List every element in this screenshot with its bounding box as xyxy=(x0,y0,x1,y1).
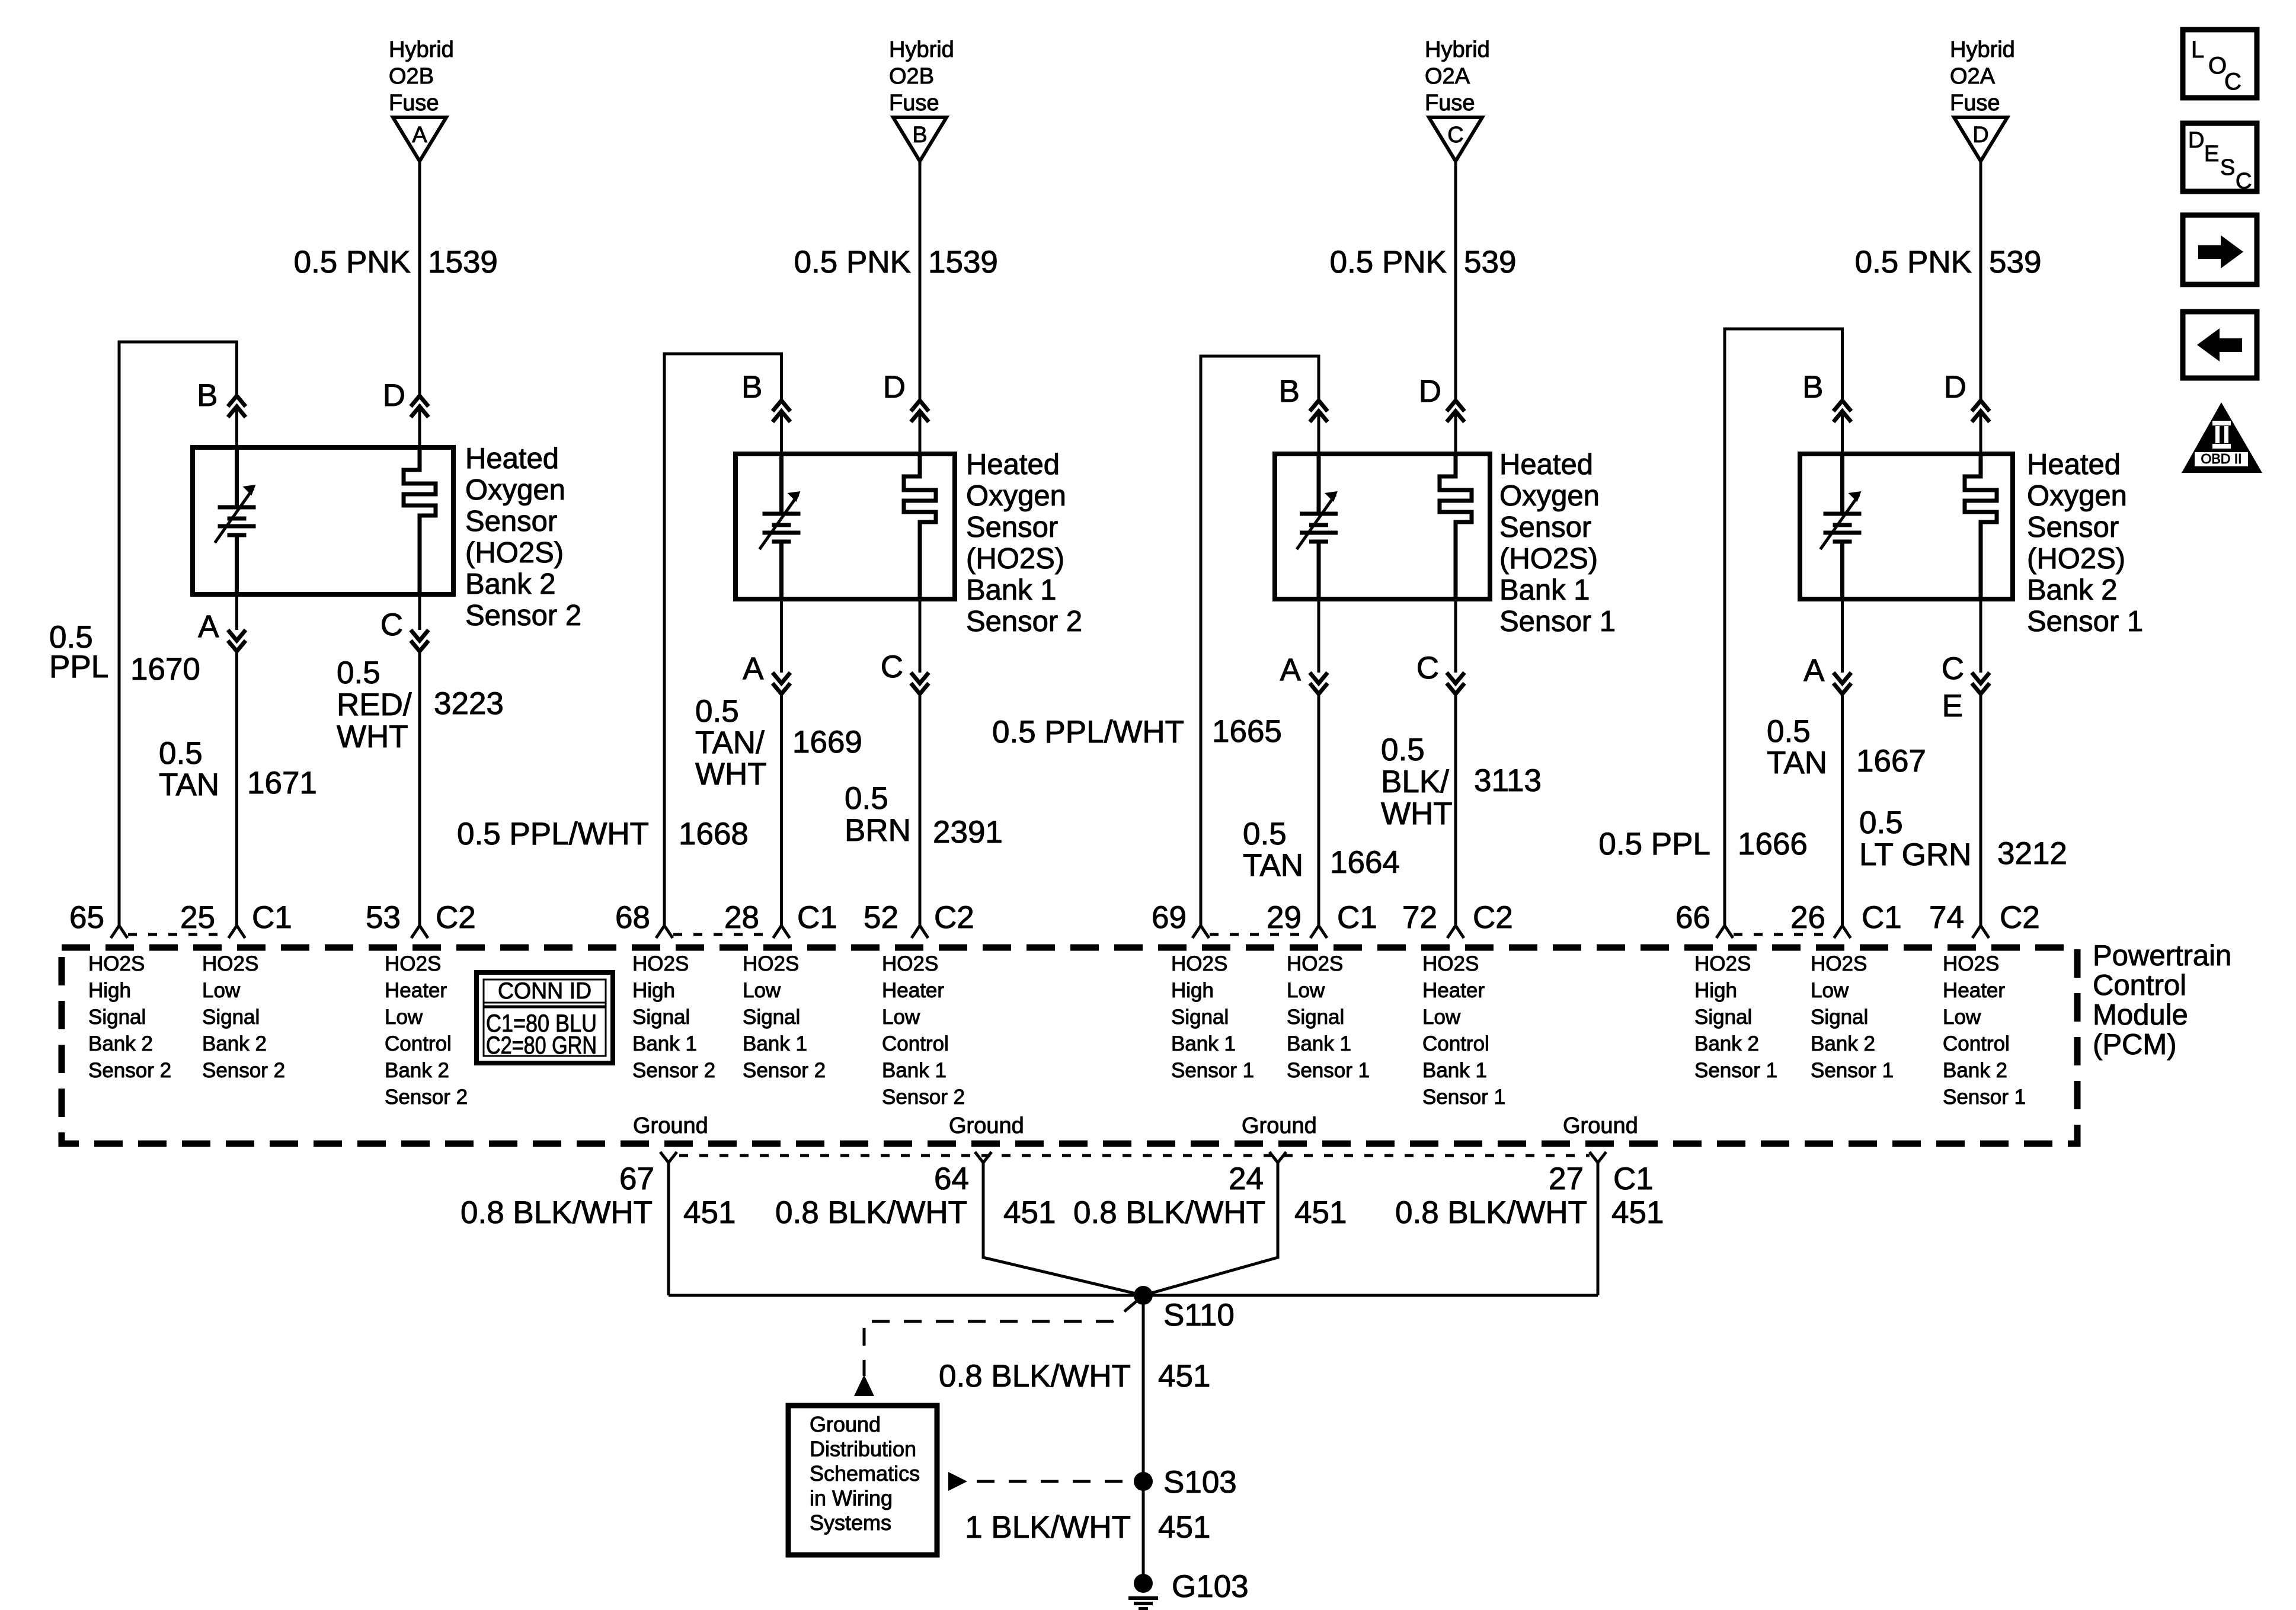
Powertrain Control Module dashed box xyxy=(62,948,2077,1144)
svg-text:TAN: TAN xyxy=(1767,745,1827,780)
wire fuse C to HO2S pin D (col 3) xyxy=(1454,161,1457,401)
svg-text:0.5 PPL/WHT: 0.5 PPL/WHT xyxy=(992,715,1184,750)
svg-text:(HO2S): (HO2S) xyxy=(1499,543,1598,575)
connector chevrons pin B (col 1) xyxy=(228,396,246,406)
svg-text:0.5: 0.5 xyxy=(337,655,380,690)
svg-text:Heated: Heated xyxy=(2027,449,2121,481)
connector Y fork ground pin 67 xyxy=(660,1152,677,1163)
svg-text:451: 451 xyxy=(1611,1195,1664,1230)
svg-text:Signal: Signal xyxy=(202,1006,260,1029)
svg-text:Hybrid: Hybrid xyxy=(1950,37,2015,62)
svg-text:Bank 1: Bank 1 xyxy=(632,1032,697,1055)
wire ground pin 24 to S110 xyxy=(1143,1163,1278,1295)
connector Y fork at PCM (col 1, x=708) xyxy=(411,926,428,938)
svg-text:Ground: Ground xyxy=(1242,1113,1317,1138)
svg-text:C: C xyxy=(1942,651,1964,686)
svg-text:Hybrid: Hybrid xyxy=(389,37,454,62)
svg-text:High: High xyxy=(88,979,131,1002)
Ground Distribution Schematics reference box xyxy=(788,1406,937,1555)
wire pin A below box (col 1) xyxy=(235,594,238,630)
svg-text:HO2S: HO2S xyxy=(1943,952,1999,975)
connector Y fork ground pin 27 xyxy=(1590,1152,1606,1163)
svg-text:(HO2S): (HO2S) xyxy=(2027,543,2125,575)
connector chevrons pin C (col 3) xyxy=(1447,673,1464,683)
connector chevrons pin C (col 1) xyxy=(411,630,428,641)
svg-text:C2: C2 xyxy=(1473,900,1513,935)
svg-text:Bank 2: Bank 2 xyxy=(1694,1032,1759,1055)
wire ground pin 27 down xyxy=(1597,1163,1600,1295)
CONN ID table xyxy=(477,972,613,1063)
wire pin D into sensor box (col 1) xyxy=(418,406,421,447)
svg-text:C: C xyxy=(2236,169,2252,194)
svg-text:Bank 2: Bank 2 xyxy=(385,1059,449,1082)
svg-text:HO2S: HO2S xyxy=(1171,952,1227,975)
svg-text:52: 52 xyxy=(864,900,898,935)
svg-text:1665: 1665 xyxy=(1212,714,1282,749)
svg-text:E: E xyxy=(2204,142,2219,167)
svg-text:Module: Module xyxy=(2093,999,2188,1031)
svg-text:1539: 1539 xyxy=(928,245,998,280)
connector chevrons pin B (col 4) xyxy=(1834,401,1851,411)
svg-text:WHT: WHT xyxy=(695,757,767,792)
fuse label Hybrid O2A Fuse (col 4) xyxy=(1950,37,2015,116)
svg-text:Fuse: Fuse xyxy=(1950,91,2000,116)
svg-text:Control: Control xyxy=(882,1032,949,1055)
svg-text:C1: C1 xyxy=(1862,900,1902,935)
svg-text:C: C xyxy=(380,607,403,642)
svg-text:Ground: Ground xyxy=(949,1113,1024,1138)
svg-text:0.5 PPL: 0.5 PPL xyxy=(1598,827,1710,862)
svg-text:Heater: Heater xyxy=(1943,979,2005,1002)
svg-text:Signal: Signal xyxy=(1694,1006,1752,1029)
svg-text:Distribution: Distribution xyxy=(810,1437,916,1461)
svg-text:HO2S: HO2S xyxy=(632,952,689,975)
svg-text:C1: C1 xyxy=(252,900,292,935)
connector chevrons pin C (col 2) xyxy=(911,673,929,683)
svg-text:0.8 BLK/WHT: 0.8 BLK/WHT xyxy=(775,1195,967,1230)
wire pin C below box (col 1) xyxy=(418,594,421,630)
label Powertrain Control Module (PCM) xyxy=(2093,940,2231,1061)
svg-text:High: High xyxy=(1694,979,1737,1002)
svg-text:Bank 1: Bank 1 xyxy=(882,1059,946,1082)
label Heated Oxygen Sensor (col 4) xyxy=(2027,449,2143,638)
svg-text:Sensor 2: Sensor 2 xyxy=(743,1059,826,1082)
svg-text:Control: Control xyxy=(1422,1032,1489,1055)
heater element symbol (col 2) xyxy=(904,454,936,599)
wire HO2S high signal loop (col 2) xyxy=(664,354,782,926)
svg-text:HO2S: HO2S xyxy=(202,952,258,975)
svg-text:Ground: Ground xyxy=(1563,1113,1638,1138)
svg-text:Sensor: Sensor xyxy=(1499,511,1591,543)
connector dashed line between signal pins (col 2) xyxy=(673,933,773,936)
svg-text:HO2S: HO2S xyxy=(882,952,938,975)
svg-text:451: 451 xyxy=(1158,1359,1210,1394)
svg-text:Powertrain: Powertrain xyxy=(2093,940,2231,972)
svg-text:(HO2S): (HO2S) xyxy=(465,537,564,569)
svg-text:64: 64 xyxy=(934,1161,969,1196)
O2 sensor element symbol (col 4) xyxy=(1821,454,1862,599)
svg-text:Sensor 1: Sensor 1 xyxy=(1694,1059,1777,1082)
svg-text:3113: 3113 xyxy=(1474,763,1542,798)
svg-text:HO2S: HO2S xyxy=(1811,952,1867,975)
svg-text:Control: Control xyxy=(385,1032,452,1055)
PCM label HO2S High Signal Bank 1 Sensor 2 xyxy=(632,952,715,1082)
dashed reference wire to S103 xyxy=(977,1480,1126,1483)
wire S110 to S103 xyxy=(1142,1295,1145,1481)
connector Y fork at PCM (col 2, x=1552) xyxy=(912,926,928,938)
svg-text:Heated: Heated xyxy=(465,443,559,475)
arrowhead right (reference to S103) xyxy=(948,1472,967,1491)
svg-text:0.8 BLK/WHT: 0.8 BLK/WHT xyxy=(461,1195,653,1230)
label Heated Oxygen Sensor (col 1) xyxy=(465,443,581,632)
svg-text:Bank 1: Bank 1 xyxy=(743,1032,807,1055)
svg-text:Sensor 2: Sensor 2 xyxy=(88,1059,171,1082)
svg-text:Systems: Systems xyxy=(810,1510,891,1535)
wire label 0.5 LT GRN (col 4) xyxy=(1859,805,1971,872)
svg-text:S103: S103 xyxy=(1163,1465,1237,1500)
svg-text:66: 66 xyxy=(1675,900,1710,935)
connector Y fork at PCM (col 3, x=2026) xyxy=(1192,926,1209,938)
svg-text:Signal: Signal xyxy=(88,1006,146,1029)
svg-text:0.5: 0.5 xyxy=(1859,805,1903,840)
label Heated Oxygen Sensor (col 2) xyxy=(966,449,1082,638)
svg-text:Heated: Heated xyxy=(1499,449,1593,481)
wire HO2S high signal loop (col 3) xyxy=(1201,356,1319,926)
svg-text:C2: C2 xyxy=(2000,900,2040,935)
svg-text:53: 53 xyxy=(366,900,401,935)
icon box DESC xyxy=(2183,123,2257,191)
fuse connector triangle C xyxy=(1429,117,1482,161)
svg-text:Sensor 1: Sensor 1 xyxy=(1499,606,1616,638)
svg-text:67: 67 xyxy=(619,1161,654,1196)
svg-text:Sensor: Sensor xyxy=(966,511,1058,543)
svg-text:Hybrid: Hybrid xyxy=(1425,37,1490,62)
wire pin C to PCM (col 3) xyxy=(1454,694,1457,926)
wire label 0.5 TAN/ WHT (col 2) xyxy=(695,694,767,792)
svg-text:HO2S: HO2S xyxy=(1694,952,1751,975)
connector chevrons pin C (col 4) xyxy=(1972,673,1990,683)
svg-text:Bank 1: Bank 1 xyxy=(1287,1032,1351,1055)
wire S103 to G103 xyxy=(1142,1481,1145,1583)
wire HO2S high signal loop (col 4) xyxy=(1725,329,1843,926)
svg-text:1668: 1668 xyxy=(679,817,749,852)
svg-text:1670: 1670 xyxy=(130,652,200,687)
wire pin A below box (col 4) xyxy=(1841,599,1844,673)
svg-text:(HO2S): (HO2S) xyxy=(966,543,1064,575)
connector chevrons pin A (col 2) xyxy=(773,673,791,683)
svg-text:1669: 1669 xyxy=(792,725,862,760)
svg-text:Control: Control xyxy=(1943,1032,2010,1055)
svg-text:D: D xyxy=(1419,374,1441,409)
svg-text:A: A xyxy=(198,609,219,644)
wire label 0.5 PPL (col 4) xyxy=(1598,827,1710,862)
svg-text:0.8 BLK/WHT: 0.8 BLK/WHT xyxy=(1073,1195,1265,1230)
icon box arrow right xyxy=(2183,215,2257,284)
svg-text:G103: G103 xyxy=(1172,1569,1249,1604)
PCM label HO2S Low Signal Bank 1 Sensor 2 xyxy=(743,952,826,1082)
svg-text:Signal: Signal xyxy=(743,1006,800,1029)
svg-text:Bank 2: Bank 2 xyxy=(202,1032,267,1055)
svg-text:HO2S: HO2S xyxy=(88,952,145,975)
connector Y fork at PCM (col 3, x=2456) xyxy=(1447,926,1464,938)
svg-text:26: 26 xyxy=(1790,900,1825,935)
svg-text:C: C xyxy=(2224,69,2241,95)
wire label 0.5 BRN (col 2) xyxy=(845,781,911,848)
svg-text:B: B xyxy=(1802,370,1823,405)
wire fuse B to HO2S pin D (col 2) xyxy=(919,161,922,401)
splice node S103 xyxy=(1134,1472,1153,1491)
connector Y fork at PCM (col 1, x=399.5) xyxy=(229,926,245,938)
svg-text:0.5 PNK: 0.5 PNK xyxy=(1330,245,1447,280)
wire ground pin 64 to S110 xyxy=(983,1163,1143,1295)
svg-text:Bank 2: Bank 2 xyxy=(1811,1032,1875,1055)
wire HO2S high signal loop (col 1) xyxy=(119,342,237,926)
svg-text:Fuse: Fuse xyxy=(389,91,439,116)
connector Y fork at PCM (col 2, x=1121) xyxy=(656,926,673,938)
svg-text:Low: Low xyxy=(882,1006,920,1029)
svg-text:65: 65 xyxy=(69,900,104,935)
svg-text:0.5 PPL/WHT: 0.5 PPL/WHT xyxy=(457,817,649,852)
svg-text:Signal: Signal xyxy=(1171,1006,1229,1029)
svg-text:HO2S: HO2S xyxy=(385,952,441,975)
svg-text:0.5: 0.5 xyxy=(1381,732,1425,767)
svg-text:Control: Control xyxy=(2093,969,2186,1001)
svg-text:C: C xyxy=(1416,651,1439,686)
svg-text:B: B xyxy=(1279,374,1300,409)
svg-text:Sensor 1: Sensor 1 xyxy=(1287,1059,1370,1082)
svg-text:Sensor 1: Sensor 1 xyxy=(1943,1086,2026,1109)
svg-text:B: B xyxy=(741,370,762,405)
wire pin C to PCM (col 4) xyxy=(1980,694,1982,926)
svg-text:TAN/: TAN/ xyxy=(695,725,765,760)
svg-text:Bank 2: Bank 2 xyxy=(1943,1059,2007,1082)
svg-text:28: 28 xyxy=(724,900,759,935)
PCM label HO2S Low Signal Bank 2 Sensor 2 xyxy=(202,952,285,1082)
heater element symbol (col 3) xyxy=(1440,454,1472,599)
svg-text:0.8 BLK/WHT: 0.8 BLK/WHT xyxy=(939,1359,1131,1394)
svg-text:Sensor 2: Sensor 2 xyxy=(882,1086,965,1109)
splice node S110 xyxy=(1134,1286,1153,1305)
connector Y fork at PCM (col 4, x=2910) xyxy=(1716,926,1733,938)
svg-text:B: B xyxy=(912,123,927,148)
connector chevrons pin A (col 4) xyxy=(1834,673,1851,683)
svg-text:OBD II: OBD II xyxy=(2201,451,2241,466)
PCM label HO2S Low Signal Bank 1 Sensor 1 xyxy=(1287,952,1370,1082)
svg-text:High: High xyxy=(1171,979,1214,1002)
svg-text:0.5: 0.5 xyxy=(845,781,888,816)
wire pin C below box (col 3) xyxy=(1454,599,1457,673)
svg-text:27: 27 xyxy=(1549,1161,1584,1196)
HO2S sensor box Bank 1 Sensor 1 (col 3) xyxy=(1275,454,1490,599)
svg-text:LT GRN: LT GRN xyxy=(1859,837,1971,872)
connector Y fork ground pin 64 xyxy=(975,1152,992,1163)
svg-text:Ground: Ground xyxy=(810,1412,881,1436)
connector chevrons pin D (col 4) xyxy=(1972,401,1990,411)
svg-text:B: B xyxy=(197,378,218,413)
connector Y fork ground pin 24 xyxy=(1269,1152,1286,1163)
svg-text:25: 25 xyxy=(180,900,215,935)
connector chevrons pin A (col 3) xyxy=(1310,673,1328,683)
wire label 0.5 TAN (col 3) xyxy=(1243,817,1303,883)
svg-text:WHT: WHT xyxy=(337,719,408,754)
svg-text:539: 539 xyxy=(1989,245,2041,280)
svg-text:0.5: 0.5 xyxy=(1767,714,1811,749)
icon OBD II triangle xyxy=(2182,402,2262,473)
svg-text:1539: 1539 xyxy=(428,245,498,280)
svg-text:Oxygen: Oxygen xyxy=(2027,480,2127,512)
svg-text:BRN: BRN xyxy=(845,813,911,848)
svg-text:Heater: Heater xyxy=(385,979,447,1002)
svg-text:O2B: O2B xyxy=(889,64,934,89)
wire pin A to PCM (col 2) xyxy=(780,694,783,926)
connector chevrons pin B (col 2) xyxy=(773,401,791,411)
svg-text:High: High xyxy=(632,979,675,1002)
fuse connector triangle D xyxy=(1954,117,2007,161)
svg-text:24: 24 xyxy=(1229,1161,1264,1196)
svg-text:Low: Low xyxy=(1943,1006,1981,1029)
PCM label HO2S Heater Low Control Bank 2 Sensor 1 xyxy=(1943,952,2026,1109)
PCM label HO2S Low Signal Bank 2 Sensor 1 xyxy=(1811,952,1894,1082)
svg-text:Low: Low xyxy=(202,979,241,1002)
connector chevrons pin B (col 3) xyxy=(1310,401,1328,411)
wire fuse A to HO2S pin D (col 1) xyxy=(418,161,421,396)
svg-text:74: 74 xyxy=(1929,900,1964,935)
heater element symbol (col 4) xyxy=(1965,454,1997,599)
wire ground bus horizontal xyxy=(669,1294,1598,1297)
svg-text:L: L xyxy=(2191,37,2204,63)
PCM label HO2S Heater Low Control Bank 1 Sensor 2 xyxy=(882,952,965,1109)
svg-text:Oxygen: Oxygen xyxy=(1499,480,1600,512)
svg-text:69: 69 xyxy=(1152,900,1187,935)
svg-text:Low: Low xyxy=(1811,979,1849,1002)
svg-text:2391: 2391 xyxy=(933,815,1003,850)
svg-text:RED/: RED/ xyxy=(337,687,412,722)
connector dashed line between signal pins (col 1) xyxy=(128,933,228,936)
svg-text:O2A: O2A xyxy=(1950,64,1996,89)
svg-text:451: 451 xyxy=(1158,1510,1210,1545)
svg-text:1664: 1664 xyxy=(1330,845,1400,880)
svg-text:Fuse: Fuse xyxy=(889,91,939,116)
svg-text:Heater: Heater xyxy=(882,979,944,1002)
HO2S sensor box Bank 2 Sensor 2 (col 1) xyxy=(193,447,453,594)
wire pin D into sensor box (col 3) xyxy=(1454,411,1457,454)
svg-text:Sensor: Sensor xyxy=(2027,511,2119,543)
connector chevrons pin D (col 1) xyxy=(411,396,428,406)
svg-text:C: C xyxy=(1447,123,1463,148)
svg-text:E: E xyxy=(1942,689,1963,724)
svg-text:C2: C2 xyxy=(436,900,476,935)
svg-text:Sensor 2: Sensor 2 xyxy=(966,606,1082,638)
svg-text:Sensor 2: Sensor 2 xyxy=(202,1059,285,1082)
svg-text:1667: 1667 xyxy=(1856,744,1926,779)
svg-text:1 BLK/WHT: 1 BLK/WHT xyxy=(965,1510,1131,1545)
svg-text:D: D xyxy=(1972,123,1988,148)
svg-text:68: 68 xyxy=(615,900,650,935)
wire label 0.5 PPL (col 1) xyxy=(49,620,108,684)
wire pin A to PCM (col 3) xyxy=(1318,694,1320,926)
svg-text:0.5: 0.5 xyxy=(695,694,739,729)
svg-text:PPL: PPL xyxy=(49,649,108,684)
svg-text:Low: Low xyxy=(1287,979,1325,1002)
svg-text:Schematics: Schematics xyxy=(810,1461,920,1486)
svg-text:Sensor 1: Sensor 1 xyxy=(2027,606,2143,638)
svg-text:Low: Low xyxy=(385,1006,423,1029)
svg-text:D: D xyxy=(883,370,906,405)
svg-text:C2=80 GRN: C2=80 GRN xyxy=(486,1031,597,1059)
connector Y fork at PCM (col 2, x=1318.5) xyxy=(773,926,790,938)
wire ground pin 67 down xyxy=(667,1163,670,1295)
svg-text:A: A xyxy=(1280,652,1302,687)
svg-text:Oxygen: Oxygen xyxy=(465,474,565,506)
svg-text:Sensor: Sensor xyxy=(465,505,557,537)
fuse label Hybrid O2B Fuse (col 1) xyxy=(389,37,454,116)
svg-text:C1: C1 xyxy=(1337,900,1377,935)
svg-text:Sensor 1: Sensor 1 xyxy=(1422,1086,1505,1109)
svg-text:Signal: Signal xyxy=(1811,1006,1868,1029)
HO2S sensor box Bank 2 Sensor 1 (col 4) xyxy=(1800,454,2013,599)
HO2S sensor box Bank 1 Sensor 2 (col 2) xyxy=(736,454,955,599)
svg-text:Bank 2: Bank 2 xyxy=(2027,574,2118,606)
svg-text:S110: S110 xyxy=(1163,1298,1235,1333)
svg-text:D: D xyxy=(1944,370,1966,405)
svg-text:C1: C1 xyxy=(1613,1161,1654,1196)
wire pin C to PCM (col 1) xyxy=(418,651,421,926)
connector dashed line between signal pins (col 3) xyxy=(1210,933,1310,936)
wire pin A below box (col 3) xyxy=(1318,599,1320,673)
thin dashed connector line along ground pins xyxy=(679,1154,1590,1157)
svg-text:HO2S: HO2S xyxy=(743,952,799,975)
svg-text:BLK/: BLK/ xyxy=(1381,764,1449,799)
svg-text:3223: 3223 xyxy=(434,686,504,721)
connector Y fork at PCM (col 1, x=201) xyxy=(111,926,127,938)
svg-text:Bank 1: Bank 1 xyxy=(1499,574,1590,606)
svg-text:0.8 BLK/WHT: 0.8 BLK/WHT xyxy=(1395,1195,1587,1230)
fuse connector triangle B xyxy=(893,117,946,161)
svg-text:C1: C1 xyxy=(797,900,837,935)
O2 sensor element symbol (col 2) xyxy=(760,454,801,599)
svg-text:1671: 1671 xyxy=(247,766,317,801)
PCM label HO2S Heater Low Control Bank 1 Sensor 1 xyxy=(1422,952,1505,1109)
connector chevrons pin D (col 3) xyxy=(1447,401,1464,411)
wire pin B into sensor box (col 4) xyxy=(1841,411,1844,454)
wire pin B into sensor box (col 2) xyxy=(780,411,783,454)
svg-text:(PCM): (PCM) xyxy=(2093,1029,2177,1061)
svg-text:Hybrid: Hybrid xyxy=(889,37,954,62)
label Heated Oxygen Sensor (col 3) xyxy=(1499,449,1616,638)
svg-text:Low: Low xyxy=(1422,1006,1461,1029)
connector Y fork at PCM (col 4, x=3342) xyxy=(1972,926,1989,938)
wire pin A to PCM (col 1) xyxy=(235,651,238,926)
svg-text:Fuse: Fuse xyxy=(1425,91,1475,116)
svg-text:A: A xyxy=(412,123,427,148)
wire pin B into sensor box (col 1) xyxy=(235,406,238,447)
wire label 0.5 PPL/WHT (col 3) xyxy=(992,715,1184,750)
wire pin C below box (col 4) xyxy=(1980,599,1982,673)
svg-text:TAN: TAN xyxy=(1243,848,1303,883)
svg-text:Signal: Signal xyxy=(1287,1006,1344,1029)
icon box arrow left xyxy=(2183,312,2257,378)
fuse label Hybrid O2A Fuse (col 3) xyxy=(1425,37,1490,116)
label Ground Distribution Schematics in Wiring Systems xyxy=(810,1412,920,1535)
svg-text:HO2S: HO2S xyxy=(1287,952,1343,975)
wire label 0.5 RED/ WHT (col 1) xyxy=(337,655,412,754)
svg-text:Bank 1: Bank 1 xyxy=(966,574,1057,606)
wire pin C below box (col 2) xyxy=(919,599,922,673)
svg-text:A: A xyxy=(1803,653,1825,688)
O2 sensor element symbol (col 1) xyxy=(215,447,256,594)
svg-text:539: 539 xyxy=(1464,245,1516,280)
svg-text:Sensor 2: Sensor 2 xyxy=(385,1086,468,1109)
